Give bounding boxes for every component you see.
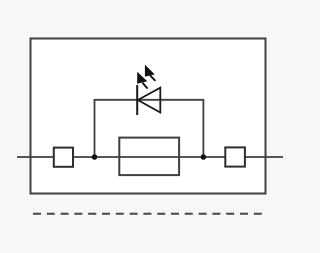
node junction left <box>92 154 98 160</box>
terminal clamp right <box>225 147 245 166</box>
terminal clamp left <box>54 148 73 167</box>
wire main horizontal conductor <box>17 156 283 158</box>
DIN rail dashed line <box>33 213 262 215</box>
LED light arrow 2 <box>145 65 156 81</box>
LED D1 triangle <box>138 88 161 113</box>
LED D1 cathode bar <box>136 85 138 115</box>
terminal block body outline <box>31 39 266 194</box>
node junction right <box>201 154 207 160</box>
wire LED branch <box>95 100 204 157</box>
LED light arrow 1 <box>137 72 147 89</box>
fuse F1 <box>119 138 179 176</box>
